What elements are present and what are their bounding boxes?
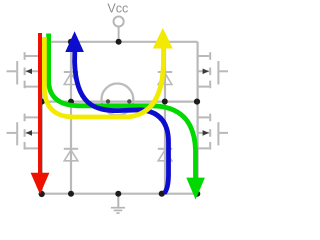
Vcc supply symbol (circle + stub)	[114, 16, 124, 41]
junction dot: right branch / middle wire	[194, 99, 200, 105]
transistor Q3 body arrow	[26, 130, 32, 136]
junction dot: ground / bottom rail	[115, 191, 121, 197]
wire: middle motor wire	[42, 100, 198, 102]
wire: right bridge branch (vertical)	[197, 42, 199, 194]
junction dot: left diode column / middle wire	[68, 99, 74, 105]
junction dot: right diode column / middle wire	[162, 99, 168, 105]
junction dot: top rail / left diode column	[68, 39, 74, 45]
motor terminal dots	[106, 99, 132, 103]
junction dot: top rail / right diode column	[162, 38, 169, 45]
transistor Q2 (high side right, N-MOSFET)	[198, 52, 228, 88]
transistor Q4 (low side right, N-MOSFET)	[198, 114, 228, 150]
junction dot: right diode column / bottom rail	[159, 191, 165, 197]
wire: top Vcc rail	[42, 41, 198, 43]
junction dot: right branch / bottom rail	[194, 191, 200, 197]
diode D1 (upper left freewheel)	[64, 72, 78, 85]
wire: left diode column	[70, 42, 72, 194]
diode D2 (upper right freewheel)	[158, 72, 172, 85]
transistor Q1 body arrow	[26, 69, 32, 75]
ground symbol	[111, 194, 125, 213]
label Vcc	[107, 1, 128, 15]
transistor Q2 body arrow	[203, 69, 209, 75]
current path red (left branch, downward)	[31, 33, 50, 194]
transistor Q3 (low side left, N-MOSFET)	[7, 114, 42, 150]
current path green (to lower right, downward arrow)	[49, 34, 205, 200]
transistor Q1 (high side left, N-MOSFET)	[7, 52, 42, 88]
junction dot: left branch / bottom rail	[39, 191, 45, 197]
junction dot: left diode column / bottom rail	[68, 191, 74, 197]
current path blue (from lower right to upper left, upward arrow)	[65, 31, 168, 193]
junction dot: Vcc to top rail	[116, 39, 122, 45]
motor M (circle)	[102, 84, 134, 116]
svg-text:Vcc: Vcc	[107, 1, 128, 15]
current path yellow (from left to upper right, upward arrow)	[44, 28, 172, 117]
transistor Q4 body arrow	[203, 130, 209, 136]
wire: bottom ground rail	[42, 193, 198, 195]
wire: right diode column	[164, 42, 166, 194]
wire: left bridge branch (vertical, under red arrow)	[41, 42, 43, 194]
junction dot: left branch / middle wire	[39, 99, 45, 105]
diode D4 (lower right freewheel)	[158, 149, 172, 161]
diode D3 (lower left freewheel)	[64, 149, 78, 161]
